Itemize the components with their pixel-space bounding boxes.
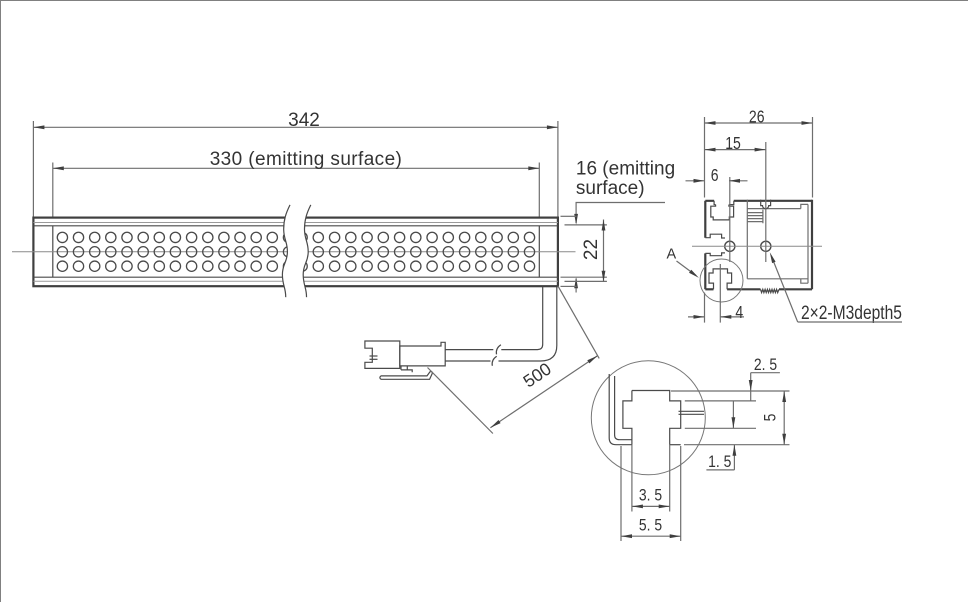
bar housing outline (side view) (33, 218, 558, 287)
svg-text:5. 5: 5. 5 (639, 516, 662, 535)
cable break ticks (492, 345, 501, 366)
dimension 500 line (490, 356, 597, 428)
dimension 22 text (581, 239, 602, 260)
profile bottom edge (705, 288, 812, 290)
break gap white-out (282, 205, 310, 297)
dimension 342 line (33, 125, 558, 129)
dimension 26 extension lines (705, 117, 813, 198)
dimension 4 extension lines (705, 264, 721, 323)
svg-text:5: 5 (761, 414, 780, 422)
svg-text:15: 15 (725, 134, 741, 154)
dimension 6 lines (686, 179, 748, 183)
label 16 emitting surface (576, 158, 675, 199)
leader line for 16 (574, 203, 665, 225)
svg-text:2. 5: 2. 5 (754, 356, 777, 375)
svg-text:A: A (667, 247, 677, 263)
dimension 330 extension lines (53, 163, 540, 217)
detail rib lines (679, 411, 705, 414)
cable lower line (445, 287, 557, 361)
dimension 5 (761, 391, 786, 445)
connector under-bracket (401, 366, 412, 372)
svg-text:3. 5: 3. 5 (639, 486, 662, 505)
connector plug (365, 341, 400, 368)
profile bottom serration (761, 289, 780, 292)
svg-text:1. 5: 1. 5 (708, 453, 731, 472)
detail extension lines (671, 391, 790, 445)
dimension 6 text (711, 165, 719, 185)
bottom-left T-slot (709, 269, 732, 289)
holes centerline (692, 245, 822, 247)
dimension 15 line (705, 148, 766, 152)
detail view circle (591, 361, 705, 475)
dimension 22 line (602, 220, 606, 282)
dimension 4 lines (688, 315, 744, 319)
16 bottom arrow (574, 277, 578, 292)
right side short extension lines (561, 216, 607, 286)
bar emitting window border lines (33, 226, 558, 277)
svg-text:342: 342 (288, 110, 320, 131)
connector latch (380, 372, 432, 380)
connector body (400, 342, 445, 366)
break line left (282, 205, 290, 297)
svg-text:surface): surface) (576, 178, 645, 199)
detail slot outline left (623, 391, 632, 445)
middle-left tongue (705, 234, 725, 256)
svg-text:6: 6 (711, 165, 719, 185)
dimension 15 text (725, 134, 741, 154)
dimension 26 text (749, 107, 765, 127)
dimension 500 text (519, 358, 555, 391)
dimension 1.5 (706, 401, 736, 471)
detail wall inner L (615, 376, 632, 440)
M3 hole left (725, 241, 735, 251)
bar inner housing lines (33, 223, 558, 282)
profile rib block (747, 210, 763, 224)
break line right (303, 205, 311, 297)
label 2x2-M3depth5 (770, 252, 902, 323)
detail right foot bottom (670, 444, 681, 446)
LED hole grid right section (297, 232, 535, 271)
svg-text:500: 500 (519, 358, 555, 391)
M3 hole right (761, 241, 771, 251)
dimension 330 text (210, 149, 403, 170)
profile left edge (704, 201, 706, 289)
dimension 342 extension lines (33, 121, 558, 217)
label A (667, 247, 699, 278)
svg-text:2×2-M3depth5: 2×2-M3depth5 (801, 301, 902, 323)
hole vertical centerlines (730, 142, 766, 262)
dimension 26 line (705, 121, 813, 125)
detail slot outline right (632, 391, 681, 445)
dimension 4 text (735, 302, 743, 322)
bar centerline (12, 251, 576, 253)
bar end cap lines (53, 226, 540, 277)
upper-left T-slot (711, 205, 734, 220)
detail wall outer L (609, 374, 632, 445)
connector pins (370, 356, 378, 359)
profile right edge (811, 200, 813, 289)
dimension 500 extension lines (428, 286, 600, 434)
cable upper line (445, 287, 542, 350)
svg-text:16 (emitting: 16 (emitting (576, 158, 675, 179)
dimension 5.5 (621, 446, 681, 541)
dimension 342 text (288, 110, 320, 131)
svg-text:4: 4 (735, 302, 743, 322)
profile top edge (705, 201, 812, 205)
svg-text:330 (emitting surface): 330 (emitting surface) (210, 149, 403, 170)
svg-text:22: 22 (581, 239, 602, 260)
profile inner cavity (747, 200, 808, 284)
LED hole grid left section (57, 232, 293, 271)
dimension 2.5 (749, 356, 780, 401)
detail A indicator circle (700, 259, 743, 302)
svg-text:26: 26 (749, 107, 765, 127)
top screw boss (761, 200, 771, 209)
dimension 330 line (53, 166, 540, 170)
dimension 3.5 (632, 445, 670, 512)
